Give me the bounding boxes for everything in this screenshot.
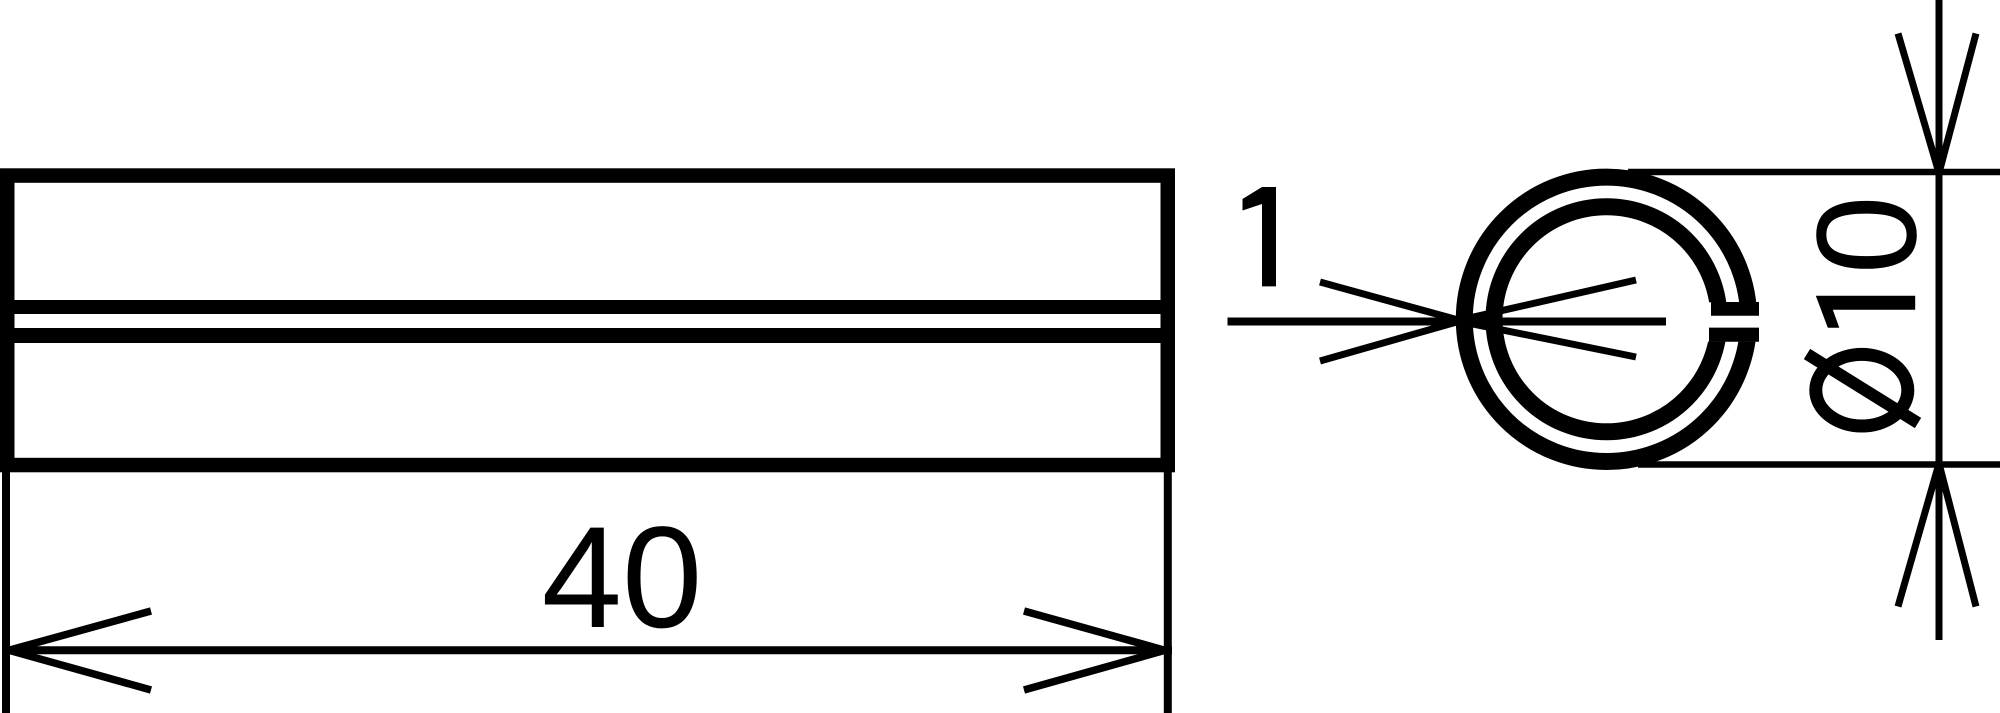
dimension text O10: diameter symbol ellipse xyxy=(1816,354,1908,426)
arrowhead barbs crossing at pin wall (dimension 1) xyxy=(1320,282,1461,321)
dimension line 40 xyxy=(2,646,1172,654)
slot lower edge line (side view) xyxy=(12,328,1163,343)
slot gap cutout in end view ring xyxy=(1668,302,1780,341)
dimension text O10: digit 1 (custom, rotated) xyxy=(1816,296,1915,328)
right arrowhead of dimension 40 xyxy=(1024,611,1165,650)
end view inner circle xyxy=(1494,207,1719,432)
left extension line for dimension 40 xyxy=(2,472,10,713)
end view outer circle xyxy=(1464,177,1748,461)
pin body side view outline xyxy=(7,176,1168,466)
vertical dimension line O10 xyxy=(1936,0,1943,640)
top arrowhead of dimension O10 xyxy=(1898,34,1939,174)
right extension line for dimension 40 xyxy=(1164,472,1172,713)
bottom arrowhead of dimension O10 xyxy=(1898,464,1939,607)
svg-text:40: 40 xyxy=(542,496,703,658)
slot upper edge line (side view) xyxy=(12,300,1163,314)
slot lower wall cap line (end view) xyxy=(1709,328,1759,342)
svg-text:0: 0 xyxy=(1787,195,1946,274)
top extension line for dimension O10 xyxy=(1628,169,2000,176)
leader line for dimension 1 xyxy=(1228,318,1667,326)
left arrowhead of dimension 40 xyxy=(9,611,151,650)
dimension text 1 xyxy=(1243,187,1277,286)
dimension text O10: diameter symbol slash xyxy=(1807,354,1918,423)
slot upper wall cap line (end view) xyxy=(1711,302,1759,316)
bottom extension line for dimension O10 xyxy=(1638,461,2000,468)
